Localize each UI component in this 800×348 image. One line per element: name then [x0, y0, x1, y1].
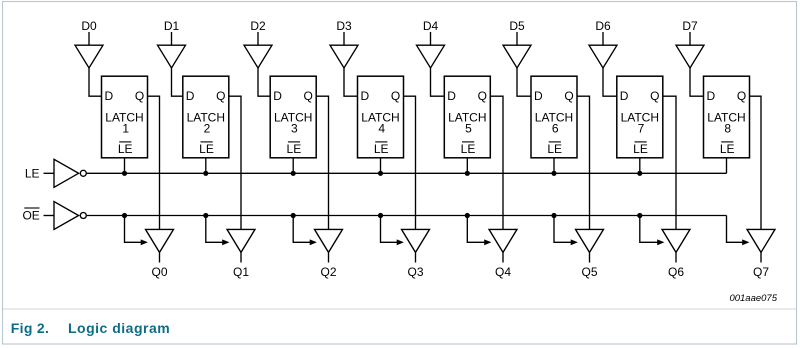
output buffer Q6 (3-state) — [662, 229, 690, 252]
svg-text:D: D — [620, 89, 629, 103]
junction latch 6 LE on LE rail — [551, 171, 556, 176]
latch 1 — [102, 76, 148, 158]
wire input buffer to latch 2 D pin — [172, 68, 183, 96]
arrowhead enable output buffer 5 — [484, 239, 491, 245]
svg-text:7: 7 — [638, 122, 645, 136]
wire latch 8 Q to output buffer — [750, 96, 762, 229]
svg-text:Q: Q — [391, 89, 400, 103]
svg-text:Q6: Q6 — [668, 265, 684, 279]
LE rail — [87, 172, 727, 174]
wire latch 3 LE pin to LE rail — [292, 158, 294, 174]
wire D4 to input buffer — [430, 32, 432, 45]
input buffer D6 — [589, 45, 617, 68]
arrowhead enable output buffer 8 — [742, 239, 749, 245]
output buffer Q7 (3-state) — [747, 229, 775, 252]
wire input buffer to latch 4 D pin — [344, 68, 358, 96]
input buffer D1 — [158, 45, 186, 68]
svg-text:001aae075: 001aae075 — [729, 293, 777, 304]
wire latch 5 LE pin to LE rail — [466, 158, 468, 174]
wire D0 to input buffer — [88, 32, 90, 45]
svg-text:Q0: Q0 — [151, 265, 167, 279]
wire input buffer to latch 5 D pin — [431, 68, 445, 96]
junction OE rail tap column 3 — [291, 213, 296, 218]
junction OE rail tap column 5 — [465, 213, 470, 218]
svg-text:LE: LE — [461, 142, 476, 156]
svg-text:LE: LE — [374, 142, 389, 156]
svg-text:1: 1 — [122, 122, 129, 136]
output buffer Q3 (3-state) — [402, 229, 430, 252]
OE rail — [87, 215, 727, 217]
wire output buffer Q6 stub — [675, 252, 677, 262]
wire output buffer Q7 stub — [760, 252, 762, 262]
wire D1 to input buffer — [171, 32, 173, 45]
junction latch 2 LE on LE rail — [203, 171, 208, 176]
junction latch 3 LE on LE rail — [291, 171, 296, 176]
svg-text:Q: Q — [564, 89, 573, 103]
wire output buffer Q5 stub — [589, 252, 591, 262]
svg-text:Q5: Q5 — [581, 265, 597, 279]
svg-text:D: D — [186, 89, 195, 103]
wire output buffer Q3 stub — [415, 252, 417, 262]
input buffer D3 — [330, 45, 358, 68]
svg-text:D3: D3 — [336, 19, 352, 33]
svg-text:Q: Q — [216, 89, 225, 103]
wire OE rail to output buffer 5 enable — [467, 216, 485, 243]
junction OE rail tap column 6 — [551, 213, 556, 218]
wire D2 to input buffer — [257, 32, 259, 45]
svg-text:Q2: Q2 — [320, 265, 336, 279]
arrowhead enable output buffer 2 — [222, 239, 229, 245]
junction OE rail tap column 7 — [637, 213, 642, 218]
wire output buffer Q0 stub — [159, 252, 161, 262]
wire input buffer to latch 3 D pin — [258, 68, 270, 96]
svg-text:LE: LE — [118, 142, 133, 156]
svg-text:D2: D2 — [250, 19, 266, 33]
junction latch 1 LE on LE rail — [122, 171, 127, 176]
wire output buffer Q1 stub — [240, 252, 242, 262]
svg-text:Q7: Q7 — [753, 265, 769, 279]
caption separator rule — [3, 308, 796, 310]
output buffer Q4 (3-state) — [489, 229, 517, 252]
wire latch 1 LE pin to LE rail — [124, 158, 126, 174]
output buffer Q5 (3-state) — [576, 229, 604, 252]
wire OE rail to output buffer 1 enable — [125, 216, 142, 243]
svg-text:D: D — [534, 89, 543, 103]
wire OE to inverter — [44, 215, 55, 217]
latch 4 — [358, 76, 404, 158]
wire latch 6 Q to output buffer — [577, 96, 590, 229]
latch 6 — [531, 76, 577, 158]
svg-text:5: 5 — [465, 122, 472, 136]
OE overline — [24, 207, 39, 209]
svg-text:Q: Q — [650, 89, 659, 103]
svg-text:LE: LE — [547, 142, 562, 156]
svg-text:LE: LE — [633, 142, 648, 156]
svg-text:LE: LE — [720, 142, 735, 156]
svg-text:D: D — [447, 89, 456, 103]
arrowhead enable output buffer 3 — [310, 239, 317, 245]
latch 7 — [617, 76, 663, 158]
junction OE rail tap column 4 — [378, 213, 383, 218]
svg-text:LE: LE — [25, 167, 40, 181]
svg-text:Q: Q — [478, 89, 487, 103]
inverter OE bubble — [80, 213, 86, 219]
wire OE rail to output buffer 6 enable — [554, 216, 572, 243]
svg-text:LE: LE — [199, 142, 214, 156]
svg-text:8: 8 — [724, 122, 731, 136]
inverter OE input — [54, 202, 79, 230]
wire OE rail to output buffer 7 enable — [640, 216, 658, 243]
svg-text:D7: D7 — [682, 19, 698, 33]
wire OE rail to output buffer 2 enable — [206, 216, 223, 243]
svg-text:Q: Q — [304, 89, 313, 103]
latch 3 — [270, 76, 316, 158]
wire input buffer to latch 8 D pin — [690, 68, 704, 96]
svg-text:D: D — [361, 89, 370, 103]
latch 5 — [444, 76, 490, 158]
input buffer D2 — [244, 45, 272, 68]
svg-text:6: 6 — [552, 122, 559, 136]
svg-text:Q: Q — [135, 89, 144, 103]
input buffer D0 — [75, 45, 103, 68]
svg-text:D0: D0 — [81, 19, 97, 33]
svg-text:LE: LE — [287, 142, 302, 156]
wire input buffer to latch 7 D pin — [603, 68, 617, 96]
output buffer Q0 (3-state) — [146, 229, 174, 252]
wire latch 3 Q to output buffer — [316, 96, 328, 229]
junction latch 4 LE on LE rail — [378, 171, 383, 176]
wire input buffer to latch 1 D pin — [89, 68, 102, 96]
wire latch 7 LE pin to LE rail — [639, 158, 641, 174]
inverter LE bubble — [80, 170, 86, 176]
wire latch 4 Q to output buffer — [404, 96, 416, 229]
arrowhead enable output buffer 6 — [571, 239, 578, 245]
wire OE rail to output buffer 3 enable — [293, 216, 310, 243]
input buffer D4 — [417, 45, 445, 68]
svg-text:Logic diagram: Logic diagram — [68, 320, 170, 336]
wire latch 2 Q to output buffer — [229, 96, 241, 229]
svg-text:Fig 2.: Fig 2. — [11, 320, 49, 336]
svg-text:D6: D6 — [595, 19, 611, 33]
junction latch 5 LE on LE rail — [465, 171, 470, 176]
svg-text:Q4: Q4 — [495, 265, 511, 279]
wire D6 to input buffer — [602, 32, 604, 45]
wire output buffer Q2 stub — [328, 252, 330, 262]
output buffer Q2 (3-state) — [315, 229, 343, 252]
svg-text:Q: Q — [737, 89, 746, 103]
svg-text:D: D — [707, 89, 716, 103]
svg-text:D4: D4 — [423, 19, 439, 33]
junction latch 7 LE on LE rail — [637, 171, 642, 176]
arrowhead enable output buffer 1 — [141, 239, 148, 245]
junction OE rail tap column 2 — [203, 213, 208, 218]
svg-text:Q1: Q1 — [233, 265, 249, 279]
wire latch 7 Q to output buffer — [663, 96, 676, 229]
wire D5 to input buffer — [516, 32, 518, 45]
svg-text:D1: D1 — [164, 19, 180, 33]
wire OE rail to output buffer 8 enable — [727, 216, 744, 243]
latch 8 — [704, 76, 750, 158]
inverter LE input — [54, 159, 79, 187]
input buffer D5 — [503, 45, 531, 68]
wire latch 4 LE pin to LE rail — [380, 158, 382, 174]
svg-text:D5: D5 — [509, 19, 525, 33]
svg-text:Q3: Q3 — [407, 265, 423, 279]
arrowhead enable output buffer 7 — [657, 239, 664, 245]
svg-text:3: 3 — [291, 122, 298, 136]
input buffer D7 — [676, 45, 704, 68]
wire output buffer Q4 stub — [502, 252, 504, 262]
svg-text:D: D — [105, 89, 114, 103]
junction OE rail tap column 1 — [122, 213, 127, 218]
wire OE rail to output buffer 4 enable — [381, 216, 398, 243]
wire latch 5 Q to output buffer — [490, 96, 503, 229]
wire input buffer to latch 6 D pin — [517, 68, 531, 96]
wire LE to inverter — [44, 172, 55, 174]
output buffer Q1 (3-state) — [227, 229, 255, 252]
svg-text:2: 2 — [204, 122, 211, 136]
arrowhead enable output buffer 4 — [397, 239, 404, 245]
svg-text:D: D — [273, 89, 282, 103]
wire latch 1 Q to output buffer — [148, 96, 160, 229]
svg-text:OE: OE — [22, 209, 39, 223]
wire D7 to input buffer — [689, 32, 691, 45]
wire D3 to input buffer — [343, 32, 345, 45]
wire latch 8 LE pin to LE rail — [726, 158, 728, 174]
svg-text:4: 4 — [378, 122, 385, 136]
wire latch 2 LE pin to LE rail — [205, 158, 207, 174]
wire latch 6 LE pin to LE rail — [553, 158, 555, 174]
latch 2 — [183, 76, 229, 158]
